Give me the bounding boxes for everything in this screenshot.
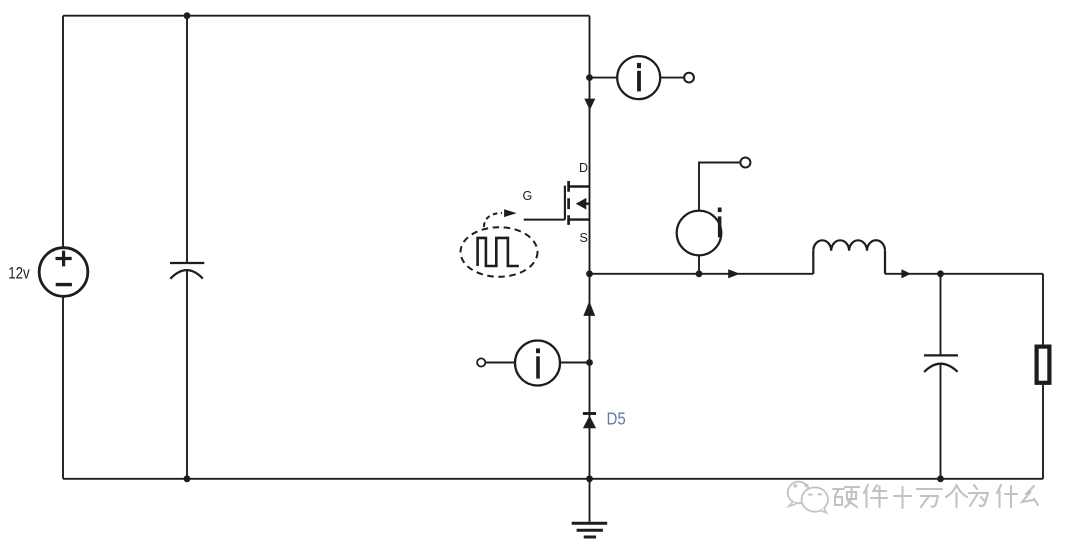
node: output cap top junction — [937, 270, 944, 277]
svg-text:D5: D5 — [607, 409, 626, 429]
char 十 — [894, 487, 911, 508]
wire meter1 left lead — [590, 77, 619, 79]
ammeter probe U3 (freewheel branch) — [515, 341, 560, 386]
svg-text:D: D — [579, 161, 588, 175]
capacitor C2 (output) — [924, 355, 958, 372]
char 件 — [864, 485, 887, 507]
wire left rail lower — [62, 296, 64, 479]
ammeter probe U2 (switch node, vertical) — [677, 208, 722, 256]
wire top rail — [63, 15, 590, 17]
wire bottom rail — [63, 478, 1043, 480]
wire load resistor lower — [1042, 385, 1044, 479]
terminal of ammeter U2 — [740, 158, 750, 168]
resistor R load — [1037, 347, 1050, 383]
node: output cap bottom junction — [937, 475, 944, 482]
PWM gate-drive annotation (dashed ellipse with pulse) — [461, 209, 538, 276]
wire switch-node rail right — [885, 273, 1043, 275]
terminal of ammeter U1 — [684, 73, 694, 83]
wire load resistor upper — [1042, 274, 1044, 345]
node: meter3 tap junction — [586, 359, 593, 366]
terminal of ammeter U3 — [477, 358, 485, 366]
svg-text:G: G — [523, 189, 533, 203]
wire meter3 right lead — [560, 362, 590, 364]
char 么 — [1022, 486, 1038, 505]
inductor L1 — [813, 240, 885, 274]
watermark logo (chat bubbles) — [788, 482, 828, 513]
arrow switch-node current right (after inductor) — [901, 269, 910, 278]
ammeter probe U1 (top) — [617, 56, 660, 99]
node: top rail / C1 junction — [184, 12, 191, 19]
wire output capacitor upper — [940, 274, 942, 356]
capacitor C1 (input) — [170, 263, 204, 279]
wire meter1 right lead — [660, 77, 684, 79]
node: bottom rail / C1 junction — [184, 475, 191, 482]
node: meter1 tap junction — [586, 74, 593, 81]
char 为 — [969, 485, 988, 506]
arrow freewheel current up — [583, 301, 595, 316]
watermark text 硬件十万个为什么 (hand-drawn light strokes) — [833, 485, 1038, 508]
svg-text:12v: 12v — [8, 264, 30, 283]
wire meter2 top lead — [699, 163, 740, 212]
wire input capacitor branch upper — [186, 16, 188, 263]
wire input capacitor branch lower — [186, 271, 188, 479]
svg-text:S: S — [580, 231, 588, 245]
ground — [572, 523, 608, 537]
char 万 — [917, 489, 942, 507]
node: meter2 tap junction — [696, 270, 703, 277]
wire meter3 left lead — [485, 362, 515, 364]
wire freewheel branch vertical — [589, 274, 591, 522]
node: ground junction — [586, 475, 593, 482]
node: switch node junction — [586, 270, 593, 277]
arrow current direction down — [584, 99, 595, 111]
diode D5 — [583, 414, 596, 429]
voltage source V1 12v — [39, 248, 88, 297]
wire output capacitor lower — [940, 364, 942, 479]
char 硬 — [833, 487, 859, 507]
wire meter2 bottom lead — [698, 255, 700, 274]
char 什 — [997, 485, 1017, 507]
char 个 — [946, 485, 967, 507]
wire left rail upper — [62, 16, 64, 248]
wire main vertical (drain branch) — [589, 16, 591, 274]
wire switch-node rail left — [590, 273, 814, 275]
arrow switch-node current right (left) — [728, 269, 740, 278]
transistor Q1 (N-MOSFET) — [524, 181, 590, 225]
